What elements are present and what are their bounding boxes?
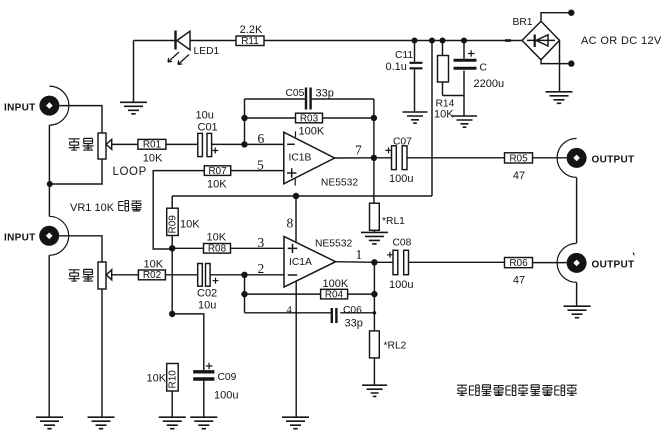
resistor R01 10K: [112, 139, 166, 164]
svg-text:AC OR DC 12V: AC OR DC 12V: [581, 35, 662, 47]
label: VR1 10K dual: [70, 201, 142, 215]
resistor R06 47: [505, 258, 567, 287]
resistor R09 10K: [167, 196, 201, 248]
svg-text:R07: R07: [208, 166, 227, 177]
node: R04 left: [241, 291, 247, 297]
label: volume 2: [69, 269, 94, 281]
wire: pin2 column down to feedback: [244, 275, 246, 313]
svg-text:10K: 10K: [180, 219, 200, 231]
capacitor C 2200u: [454, 41, 505, 116]
node: R03 left: [241, 115, 247, 121]
svg-text:*RL1: *RL1: [382, 216, 405, 227]
svg-text:BR1: BR1: [513, 17, 533, 28]
wire: pin 6 input: [245, 131, 284, 146]
wire: output column top: [373, 99, 375, 158]
label: pin 4: [287, 305, 293, 316]
node: shield/pot junction: [47, 181, 53, 187]
svg-text:INPUT: INPUT: [4, 233, 36, 244]
node: pin 1 / C08: [371, 259, 377, 265]
input jack J1 INPUT: [4, 86, 69, 125]
resistor R10 10K: [147, 364, 179, 417]
svg-text:R04: R04: [325, 289, 344, 300]
wire: feedback node vertical (pin6 to R03/C05): [244, 99, 246, 144]
resistor R07 10K: [153, 166, 284, 249]
wire: pin 7 output: [335, 143, 374, 158]
svg-text:10K: 10K: [207, 179, 227, 191]
ground (RL2): [362, 385, 387, 396]
ground (C11): [403, 112, 428, 123]
node: R03 right / output column: [371, 115, 377, 121]
svg-text:IC1B: IC1B: [289, 153, 312, 164]
capacitor C09 100u: [172, 314, 238, 417]
ground (pot VR1b): [88, 417, 115, 429]
svg-text:10u: 10u: [196, 110, 214, 122]
svg-text:2: 2: [258, 261, 265, 276]
node: pin 2 junction: [241, 272, 247, 278]
svg-text:33p: 33p: [345, 318, 363, 330]
svg-text:10K: 10K: [143, 153, 163, 165]
svg-text:4: 4: [287, 305, 293, 316]
op-amp IC1A: [284, 237, 352, 288]
svg-text:NE5532: NE5532: [315, 238, 352, 249]
node: C 2200u tap: [461, 38, 467, 44]
wire: output2 shield to ground: [576, 282, 578, 305]
capacitor C08 100u: [377, 238, 504, 291]
svg-text:INPUT: INPUT: [4, 103, 36, 114]
svg-text:C11: C11: [395, 50, 413, 61]
svg-text:1: 1: [356, 247, 363, 262]
svg-text:8: 8: [287, 216, 294, 231]
node: bias / C09 tap: [169, 311, 175, 317]
capacitor C06 33p: [245, 305, 377, 330]
speck near OUTPUT2: [633, 253, 634, 256]
wire: shield to ground: [48, 255, 50, 416]
svg-text:47: 47: [513, 170, 525, 182]
wire: pin 8 supply: [287, 196, 297, 242]
ground (LED branch): [120, 102, 147, 114]
ground (R10): [159, 417, 186, 429]
node: C11 tap: [412, 38, 418, 44]
resistor *RL1: [370, 158, 406, 232]
resistor R08 10K: [172, 232, 284, 255]
wire: mid +12V rail: [172, 195, 432, 197]
svg-text:6: 6: [258, 131, 265, 146]
wire: BR1 AC terminal bottom: [541, 60, 575, 67]
svg-text:R09: R09: [168, 215, 179, 234]
svg-text:LED1: LED1: [194, 46, 220, 57]
resistor R11 2.2K: [236, 24, 264, 47]
svg-text:100u: 100u: [389, 279, 413, 291]
node: pin6 junction: [241, 141, 247, 147]
wire: pin 4 supply drop: [295, 281, 297, 417]
svg-text:LOOP: LOOP: [113, 166, 147, 178]
label: LOOP: [113, 166, 147, 178]
svg-text:R02: R02: [143, 270, 162, 281]
svg-text:R06: R06: [509, 258, 528, 269]
svg-text:C05: C05: [286, 88, 305, 99]
svg-text:C07: C07: [393, 136, 412, 147]
svg-text:0.1u: 0.1u: [386, 61, 407, 73]
svg-text:5: 5: [257, 158, 264, 173]
svg-text:10K: 10K: [144, 259, 164, 271]
wire: pin 2 input: [245, 261, 285, 276]
svg-text:R05: R05: [509, 153, 528, 164]
svg-text:100K: 100K: [299, 126, 325, 138]
resistor *RL2: [370, 331, 407, 385]
svg-text:C09: C09: [218, 372, 237, 383]
ground (input shield): [36, 417, 63, 429]
resistor R04 100K: [245, 278, 375, 300]
svg-text:C02: C02: [197, 288, 217, 300]
resistor R02 10K: [112, 259, 198, 282]
resistor R03 100K: [245, 113, 374, 137]
wire: IC1A output column: [373, 262, 375, 331]
node: R14 tap: [440, 38, 446, 44]
svg-text:7: 7: [355, 143, 362, 158]
svg-text:C06: C06: [343, 305, 362, 316]
svg-text:R08: R08: [208, 244, 227, 255]
svg-text:C01: C01: [198, 122, 218, 134]
svg-text:OUTPUT: OUTPUT: [592, 260, 635, 271]
ground (BR1): [546, 92, 573, 104]
svg-text:3: 3: [258, 235, 265, 250]
wire: J1 to pot VR1a: [59, 106, 102, 133]
svg-text:33p: 33p: [316, 88, 334, 100]
node: bias node R09/R08/R07: [169, 245, 175, 251]
ground (C09): [190, 417, 217, 429]
node: R04 right: [371, 291, 377, 297]
svg-text:C08: C08: [393, 238, 412, 249]
wire: LED branch left drop to ground: [134, 41, 175, 103]
capacitor C07 100u: [377, 136, 505, 185]
label: AC OR DC 12V: [581, 35, 662, 47]
label: site watermark: [457, 385, 577, 396]
capacitor C05 33p: [245, 88, 374, 110]
LED LED1: [168, 31, 236, 65]
wire: top +12V rail: [264, 40, 522, 42]
svg-text:100u: 100u: [389, 173, 413, 185]
label: volume 1: [69, 138, 94, 150]
wire: BR1 AC terminal top: [541, 10, 575, 22]
svg-text:10K: 10K: [434, 109, 454, 121]
capacitor C01 10u: [166, 110, 245, 157]
svg-text:R10: R10: [168, 370, 179, 389]
svg-text:VR1 10K: VR1 10K: [70, 202, 115, 214]
svg-text:10K: 10K: [147, 373, 167, 385]
resistor R14 10K: [434, 41, 464, 121]
wire: J2 to pot VR1b: [59, 236, 102, 262]
svg-text:*RL2: *RL2: [384, 341, 407, 352]
op-amp IC1B: [257, 131, 358, 188]
capacitor C11 0.1u: [386, 41, 423, 112]
input jack J2 INPUT: [4, 216, 69, 255]
capacitor C02 10u: [197, 264, 245, 312]
wire: BR1 negative to ground: [559, 40, 561, 91]
output jack J4 OUTPUT: [557, 243, 634, 282]
svg-text:NE5532: NE5532: [321, 178, 358, 189]
svg-text:R03: R03: [300, 113, 319, 124]
wire: pin 1 output: [336, 247, 375, 263]
bridge rectifier BR1: [513, 17, 560, 60]
node: pin 8 tap: [293, 193, 299, 199]
svg-text:100K: 100K: [323, 278, 349, 290]
svg-text:10K: 10K: [207, 232, 227, 244]
wire: +12V drop to mid rail: [431, 41, 433, 197]
svg-text:IC1A: IC1A: [289, 257, 312, 268]
resistor R05 47: [505, 153, 567, 182]
svg-text:10u: 10u: [198, 300, 216, 312]
wire: bias column down: [171, 248, 173, 314]
svg-text:R01: R01: [143, 140, 162, 151]
svg-text:47: 47: [513, 275, 525, 287]
node: mid-rail feed tap: [429, 38, 435, 44]
node: pin 7 / C07: [371, 155, 377, 161]
svg-text:C: C: [480, 63, 488, 74]
ground (IC1A pin4): [282, 417, 309, 429]
ground (output jacks): [564, 306, 591, 318]
ground (C 2200u / R14): [452, 116, 477, 127]
ground (RL1): [361, 232, 388, 244]
potentiometer VR1a (volume): [50, 133, 112, 184]
svg-text:R11: R11: [241, 36, 259, 47]
output jack J3 OUTPUT: [557, 138, 634, 177]
wire: output shield chain: [576, 177, 578, 243]
svg-text:2.2K: 2.2K: [240, 24, 263, 36]
wire: shield chain left: [48, 125, 50, 216]
potentiometer VR1b (volume): [98, 262, 112, 417]
svg-text:OUTPUT: OUTPUT: [592, 155, 635, 166]
svg-text:2200u: 2200u: [474, 78, 505, 90]
svg-text:100u: 100u: [214, 390, 238, 402]
